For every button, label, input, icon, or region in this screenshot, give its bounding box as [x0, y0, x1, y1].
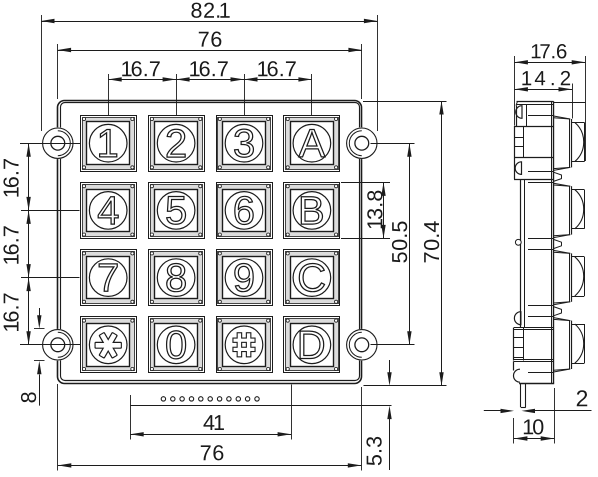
key 9 [217, 250, 273, 306]
mounting ear hole bottom-right [346, 329, 378, 361]
key A [284, 116, 340, 172]
dim 5.3 pin protrusion [366, 360, 391, 470]
dim 2 pin offset [484, 390, 592, 413]
key 8 [149, 250, 205, 306]
mounting ear hole bottom-left [42, 329, 74, 361]
side view screw boss small circle [515, 239, 521, 245]
dim 16.7 key pitch vertical (x3) left side [3, 143, 80, 345]
key star [81, 317, 137, 373]
side view bottom mounting boss [514, 361, 555, 383]
side view inter-key tab 1 [554, 172, 562, 181]
dim 16.7 key pitch horizontal (x3) [108, 61, 312, 115]
connector bottom edge line [130, 405, 391, 407]
key 1 [81, 116, 137, 172]
key hash [217, 317, 273, 373]
dim 17.6 overall depth [514, 44, 585, 161]
side view key bump row 4 [528, 317, 585, 373]
dim 13.8 key size right side [341, 182, 390, 238]
dim 70.4 plate height [363, 101, 447, 386]
dim 41 connector width [130, 385, 291, 440]
side view key bump row 3 [528, 250, 585, 306]
key 6 [217, 183, 273, 239]
side view top ladder section [514, 126, 554, 158]
key 3 [217, 116, 273, 172]
key C [284, 250, 340, 306]
dim 10 pin position [514, 388, 555, 444]
side view bottom ladder section [514, 328, 555, 362]
key B [284, 183, 340, 239]
key 5 [149, 183, 205, 239]
dim 50.5 hole spacing [371, 143, 415, 345]
key 4 [81, 183, 137, 239]
side view upper boss with ear arc [514, 157, 554, 179]
keypad front view plate outline [58, 101, 362, 384]
side view top mounting boss [514, 101, 585, 126]
mounting ear hole top-left [42, 127, 74, 159]
side view lower ear arc bump [514, 312, 521, 325]
key 2 [149, 116, 205, 172]
side view housing body edge [521, 101, 554, 383]
dim 76 top plate width [58, 32, 362, 99]
key 0 [149, 317, 205, 373]
dim 14.2 body depth [514, 71, 572, 119]
key 7 [81, 250, 137, 306]
dim 8 ear diameter bottom-left [21, 308, 45, 406]
side view key bump row 2 [528, 183, 585, 239]
dim 76 bottom plate width [58, 384, 362, 471]
side view key bump row 1 [528, 116, 585, 172]
side view inter-key tab 3 [554, 307, 562, 316]
dim 82.1 overall width [41, 3, 378, 131]
side view inter-key tab 2 [554, 239, 562, 248]
side view connector pin [521, 383, 526, 407]
mounting ear hole top-right [346, 127, 378, 159]
key D [284, 317, 340, 373]
connector pin holes row [161, 397, 259, 401]
